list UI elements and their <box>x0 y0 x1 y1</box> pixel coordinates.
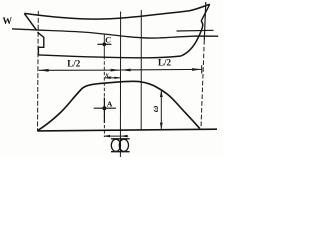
wire dimension line L/2 left <box>39 69 121 72</box>
wire omega ordinate dimension arrow <box>160 90 163 129</box>
wire lower small dimension under baseline <box>104 135 128 138</box>
wire keel line <box>38 55 181 58</box>
node C point marker cross <box>97 43 111 45</box>
wire stern sternpost with rudder aperture <box>37 32 43 55</box>
node ordinate station line x=141 <box>140 10 142 130</box>
wire lower baseline <box>37 129 217 131</box>
node station line through C and A <box>103 35 105 138</box>
node A point marker cross <box>94 98 116 124</box>
svg-text:L/2: L/2 <box>67 58 81 68</box>
node AP (aft perpendicular dashed line) <box>37 11 40 131</box>
node midship centerline <box>119 12 121 158</box>
wire waterline W <box>12 29 218 38</box>
svg-text:L/2: L/2 <box>158 57 172 67</box>
wire area curve <box>38 81 200 130</box>
wire stern counter diagonal <box>24 13 36 30</box>
wire bow rake above waterline <box>201 4 210 21</box>
node FP (forward perpendicular line, slanted, dashed lower) <box>201 2 206 130</box>
svg-text:A: A <box>107 100 113 109</box>
svg-text:C: C <box>105 35 111 45</box>
wire second waterline near bow <box>177 29 214 32</box>
wire deck sheer line <box>24 4 209 19</box>
node midship section symbol <box>111 139 130 152</box>
wire dimension x_c <box>105 77 121 79</box>
wire bow stem curve <box>181 21 203 56</box>
wire dimension line L/2 right <box>121 65 202 73</box>
svg-text:ω: ω <box>150 105 160 112</box>
svg-text:W: W <box>3 17 13 27</box>
